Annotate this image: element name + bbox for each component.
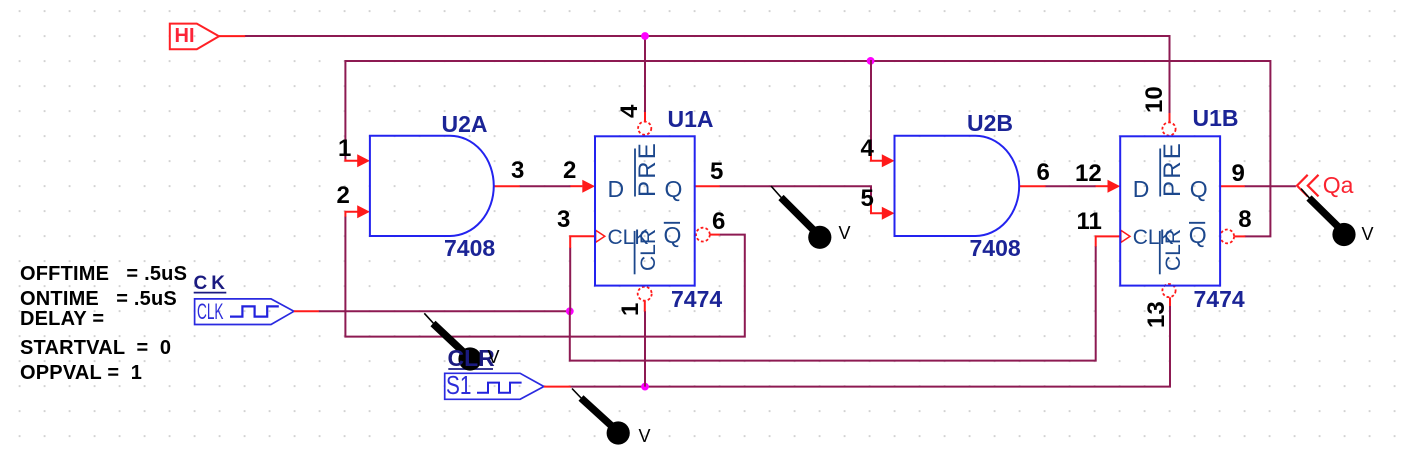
U1B label D bbox=[1133, 178, 1150, 201]
voltage probe on U1A Q wire bbox=[771, 186, 831, 249]
D flip-flop U1B body bbox=[1120, 136, 1220, 285]
wire CLR net from S1 to U1A pin 1 and U1B pin 13 bbox=[570, 306, 1170, 387]
wire U1A Q to U2B pin 5 bbox=[720, 186, 871, 200]
U1B pin 8 number bbox=[1238, 208, 1251, 232]
pin stub red U2A output pin3 bbox=[494, 185, 520, 187]
pin stub red U1A D pin2 bbox=[570, 185, 582, 187]
pin stub red U1B Qbar pin8 bbox=[1234, 235, 1245, 237]
U1A label Q bbox=[665, 178, 683, 201]
node junction on CK net bbox=[566, 307, 574, 315]
pin stub red U2A pin2 bbox=[345, 212, 358, 217]
pin arrow U2A pin2 bbox=[357, 205, 370, 218]
pin stub red U1A pin4 bbox=[644, 112, 646, 121]
annotation DELAY bbox=[20, 309, 104, 329]
U1A label CLK bbox=[608, 227, 649, 248]
U2B pin 4 number bbox=[861, 137, 874, 161]
pin arrow U2B pin4 bbox=[882, 154, 895, 167]
pin stub red U1A pin3 clock bbox=[569, 236, 595, 249]
U2B pin 5 number bbox=[861, 187, 874, 211]
probe V label CLR bbox=[639, 427, 651, 445]
pin stub red U2B pin4 bbox=[871, 150, 883, 161]
annotation STARTVAL bbox=[20, 338, 171, 358]
U1A pin 6 number bbox=[712, 210, 725, 234]
CK symbol CLK text bbox=[197, 301, 224, 323]
CK pin stub red bbox=[294, 310, 319, 312]
bubble U1B pin13 bbox=[1162, 284, 1175, 297]
S1 symbol text bbox=[446, 372, 471, 398]
pin stub red U1A pin1 bbox=[644, 301, 646, 312]
wire CK net horizontal bbox=[319, 310, 570, 312]
clock triangle U1A pin3 bbox=[596, 230, 605, 242]
U1B pin 12 number bbox=[1075, 162, 1102, 186]
bubble U1B pin10 bbox=[1162, 122, 1175, 135]
probe V label Qa bbox=[1362, 225, 1374, 243]
clock triangle U1B pin11 bbox=[1121, 230, 1130, 242]
pin arrow U2B pin5 bbox=[882, 207, 895, 220]
CK net label bbox=[194, 274, 229, 293]
wire branch down to U2B pin 4 bbox=[870, 60, 872, 151]
wire U2A output to U1A D bbox=[520, 185, 571, 187]
pin stub red U1A Qbar pin6 bbox=[710, 234, 720, 236]
node junction on CLR net bbox=[641, 383, 649, 391]
U1B pin 13 number rotated bbox=[1145, 301, 1169, 328]
U1B pin 9 number bbox=[1232, 162, 1245, 186]
HI pin stub red bbox=[219, 35, 245, 37]
U1B label PRE rotated bbox=[1161, 141, 1185, 197]
overbar CLR U1B bbox=[1159, 231, 1161, 274]
wire U1A Q-bar to U2A pin 2 bbox=[345, 216, 744, 336]
D flip-flop U1A body bbox=[595, 136, 695, 285]
wire U1B Q to Qa bbox=[1245, 185, 1296, 187]
probe V label U1A Q bbox=[839, 224, 851, 242]
HI label bbox=[175, 26, 195, 46]
U2B designator bbox=[967, 112, 1013, 135]
U1B pin 10 number rotated bbox=[1143, 86, 1167, 113]
voltage probe on CLR wire bbox=[572, 389, 630, 445]
U1A pin 1 number rotated bbox=[619, 303, 643, 316]
pin stub red U1B pin13 bbox=[1169, 297, 1171, 306]
pin stub red U2B pin5 bbox=[871, 200, 883, 214]
S1 waveform glyph bbox=[477, 383, 522, 393]
pin stub red U2A pin1 bbox=[345, 159, 358, 161]
bubble U1A pin4 bbox=[638, 122, 651, 135]
U1B pin 11 number bbox=[1077, 210, 1102, 234]
HI source symbol bbox=[170, 24, 219, 50]
U2A pin 1 number bbox=[338, 137, 351, 161]
CK waveform glyph bbox=[230, 306, 279, 316]
U1A pin 3 number bbox=[557, 208, 570, 232]
U2A pin 2 number bbox=[337, 184, 350, 208]
pin arrow U1B D pin12 bbox=[1108, 180, 1121, 193]
pin stub red U1B D pin12 bbox=[1096, 185, 1108, 187]
U1B label CLK bbox=[1133, 227, 1174, 248]
pin stub red U2B output pin6 bbox=[1019, 185, 1045, 187]
U1A pin 2 number bbox=[563, 159, 576, 183]
pin stub red U1B Q pin9 bbox=[1220, 185, 1245, 187]
wire U2B output to U1B D bbox=[1045, 185, 1095, 187]
U2B pin 6 number bbox=[1037, 161, 1050, 185]
annotation ONTIME bbox=[20, 289, 177, 309]
Qa port label bbox=[1323, 174, 1354, 197]
U2A value 7408 bbox=[444, 237, 495, 260]
U1A pin 4 number rotated bbox=[618, 105, 642, 118]
bubble U1A pin6 bbox=[696, 228, 710, 242]
wire branch up to U1A pin 1 bbox=[644, 311, 646, 387]
wire feedback net U1B Q-bar to U2A pin1 / U2B pin4 bbox=[345, 61, 1270, 236]
U1B value 7474 bbox=[1194, 288, 1245, 311]
clock source CK symbol body bbox=[195, 299, 294, 325]
U1A value 7474 bbox=[671, 288, 722, 311]
overbar Qbar U1B bbox=[1189, 222, 1205, 224]
overbar CLR U1A bbox=[634, 231, 636, 274]
overbar PRE U1A bbox=[634, 149, 636, 197]
overbar PRE U1B bbox=[1159, 149, 1161, 197]
pin arrow U2A pin1 bbox=[357, 154, 370, 167]
probe V label CK bbox=[488, 348, 500, 366]
pin stub red U1B pin11 clock bbox=[1095, 236, 1120, 246]
U1A label D bbox=[608, 178, 625, 201]
U1B label Qbar bbox=[1189, 224, 1207, 247]
AND gate U2A body bbox=[370, 136, 494, 236]
wire HI net top horizontal to U1B pin 10 bbox=[245, 36, 1170, 114]
U1A pin 5 number bbox=[710, 160, 723, 184]
U2B value 7408 bbox=[970, 237, 1021, 260]
U1A label CLR rotated bbox=[638, 229, 659, 271]
U1B label CLR rotated bbox=[1163, 229, 1184, 271]
node junction on HI net bbox=[641, 32, 649, 40]
U1B label Q bbox=[1190, 178, 1208, 201]
S1 pin stub red bbox=[544, 386, 571, 388]
wire CK branch up to U1A pin 3 bbox=[569, 248, 571, 312]
bubble U1A pin1 bbox=[638, 287, 652, 301]
Qa port chevrons bbox=[1297, 175, 1319, 197]
CLR label underline bbox=[448, 368, 493, 370]
U2A designator bbox=[442, 113, 488, 136]
node junction on feedback net bbox=[867, 57, 875, 65]
pin stub red U1B pin10 bbox=[1169, 113, 1171, 122]
voltage probe on Qa wire bbox=[1301, 189, 1356, 246]
wire branch to U1A pin 4 bbox=[644, 36, 646, 113]
U1A designator bbox=[668, 108, 714, 131]
annotation OFFTIME bbox=[20, 264, 187, 284]
U1A label PRE rotated bbox=[636, 141, 660, 197]
pin arrow U1A D pin2 bbox=[582, 180, 595, 193]
CLR net label bbox=[448, 347, 495, 370]
bubble U1B pin8 bbox=[1220, 230, 1234, 244]
clock source S1 symbol body bbox=[445, 373, 544, 399]
U1A label Qbar bbox=[664, 224, 682, 247]
overbar Qbar U1A bbox=[664, 222, 680, 224]
annotation OPPVAL bbox=[20, 363, 142, 383]
U1B designator bbox=[1193, 107, 1239, 130]
AND gate U2B body bbox=[895, 136, 1020, 236]
CK label underline bbox=[194, 292, 227, 294]
wire CK branch down and right to U1B pin 11 bbox=[570, 246, 1096, 361]
pin stub red U1A Q pin5 bbox=[695, 185, 720, 187]
U2A pin 3 number bbox=[511, 159, 524, 183]
voltage probe on CK wire bbox=[424, 313, 481, 370]
